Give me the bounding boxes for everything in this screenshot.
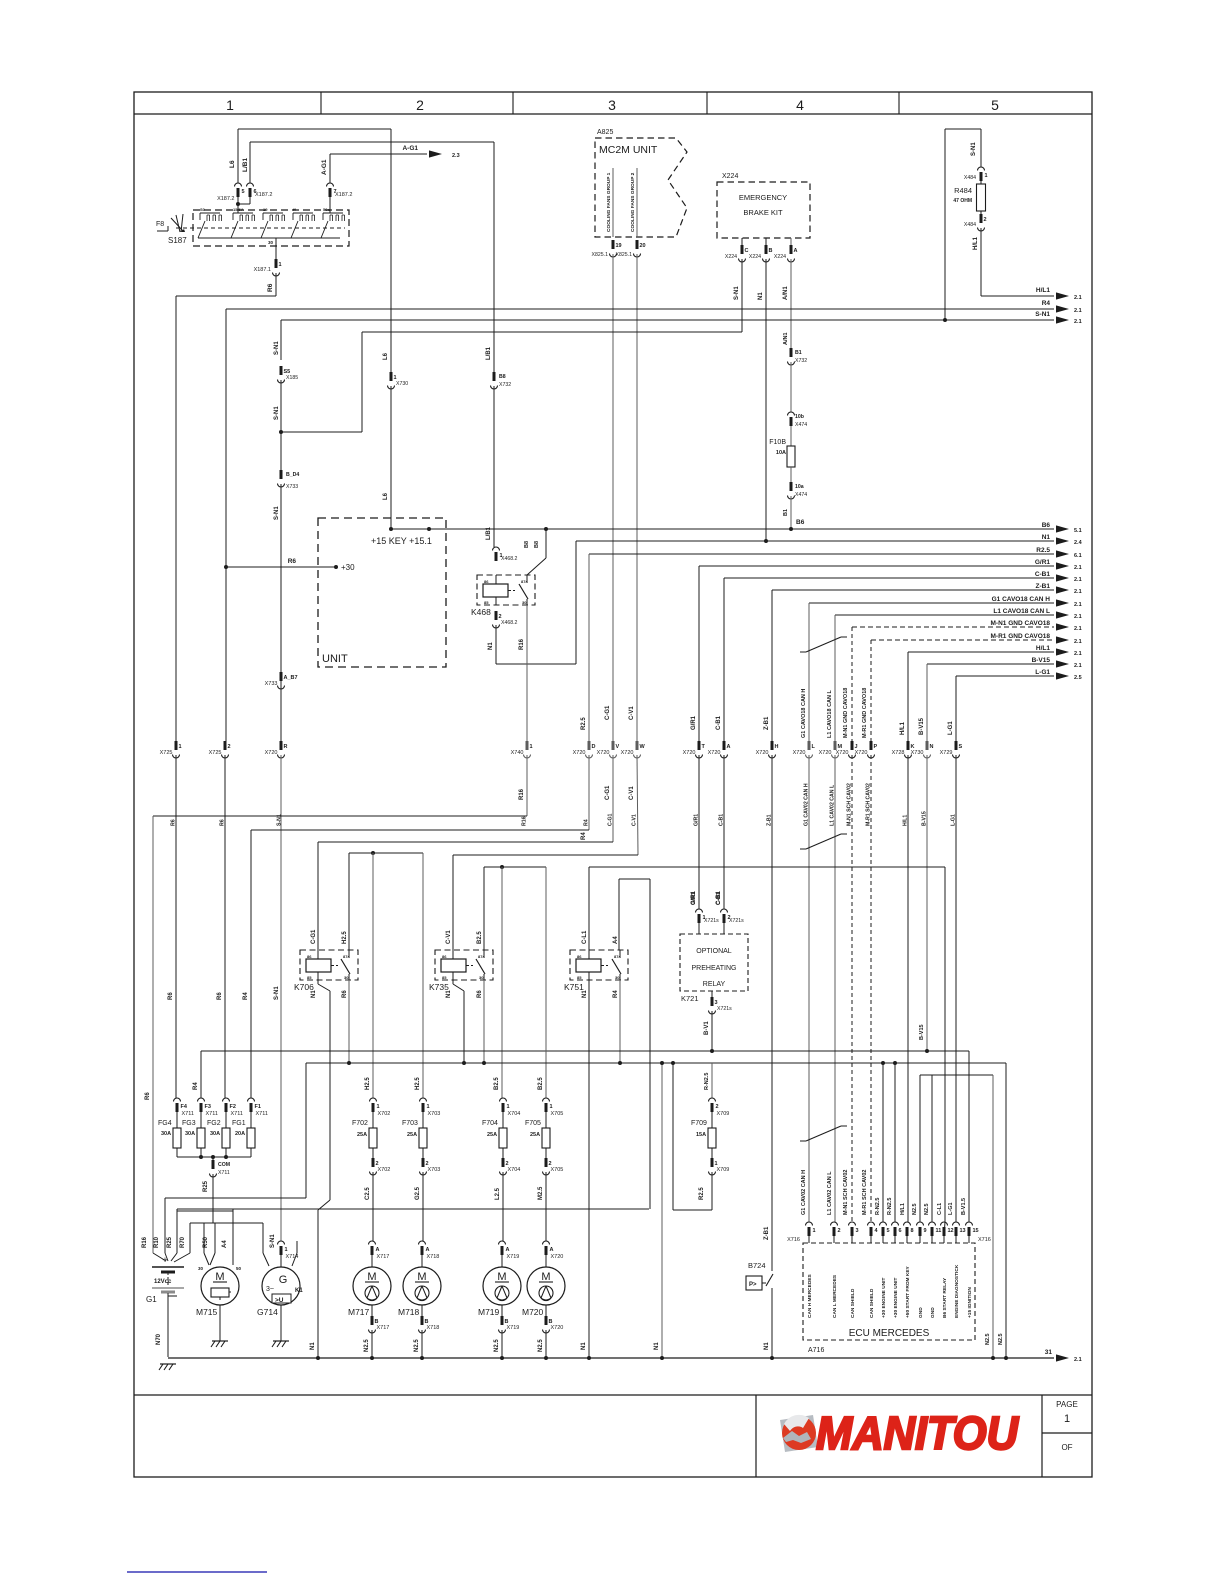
connector X733 pin B_D4	[278, 470, 285, 487]
svg-text:M-R1 SCH CAV02: M-R1 SCH CAV02	[862, 1170, 868, 1215]
wire F702 feed	[372, 853, 374, 1098]
svg-text:V: V	[616, 744, 620, 750]
wire L6 into key unit	[390, 386, 392, 529]
bus y1198	[165, 1197, 306, 1199]
wire FG1 feed col 251	[250, 830, 252, 1098]
svg-text:X187.2: X187.2	[255, 192, 272, 198]
svg-text:G/R1: G/R1	[1035, 559, 1051, 566]
svg-text:C-V1: C-V1	[632, 814, 638, 826]
svg-text:B1: B1	[783, 509, 789, 516]
svg-text:COOLING FANS GROUP 1: COOLING FANS GROUP 1	[606, 172, 612, 232]
svg-text:R25: R25	[203, 1180, 209, 1192]
svg-text:Z-B1: Z-B1	[764, 1226, 770, 1240]
svg-text:X720: X720	[819, 750, 832, 756]
wire L/B1 top bus	[250, 141, 494, 143]
svg-text:F4: F4	[181, 1104, 188, 1110]
svg-text:1: 1	[985, 173, 988, 179]
svg-text:R4: R4	[243, 992, 249, 1000]
junction +15.1	[427, 527, 431, 531]
off-page arrow H/L1	[1056, 648, 1069, 655]
junction S-N1	[279, 430, 283, 434]
svg-text:X725: X725	[160, 750, 173, 756]
svg-text:X185: X185	[286, 375, 298, 381]
connector X718 pin B	[421, 1305, 423, 1316]
svg-text:+15 KEY +15.1: +15 KEY +15.1	[371, 536, 432, 546]
svg-text:N1: N1	[1042, 534, 1051, 541]
svg-text:M: M	[417, 1271, 426, 1283]
svg-text:A: A	[550, 1247, 554, 1253]
wire F709 feed	[711, 1063, 713, 1098]
wire R-N2.5 to ECU pin6	[894, 1063, 896, 1222]
off-page arrow L1 CAVO18 CAN L	[1056, 611, 1069, 618]
svg-text:X716: X716	[978, 1237, 991, 1243]
svg-text:N1: N1	[764, 1342, 770, 1350]
svg-text:9: 9	[924, 1228, 927, 1234]
svg-text:H2.5: H2.5	[365, 1077, 371, 1090]
bus y1209	[177, 1208, 649, 1210]
svg-text:X720: X720	[265, 750, 278, 756]
svg-text:B6: B6	[1042, 522, 1051, 529]
connector X716 pin 3	[849, 1222, 859, 1236]
svg-text:2.1: 2.1	[1074, 589, 1082, 595]
svg-text:N1: N1	[654, 1342, 660, 1350]
svg-text:15A: 15A	[696, 1132, 706, 1138]
svg-text:30: 30	[344, 975, 349, 980]
switch bank 1 (S0)	[198, 207, 222, 238]
svg-text:W: W	[640, 744, 646, 750]
svg-text:5: 5	[991, 97, 999, 113]
svg-text:M-R1 GND CAVO18: M-R1 GND CAVO18	[991, 633, 1051, 640]
wire M-R1 GND CAVO18 drop	[870, 640, 872, 741]
svg-text:11: 11	[936, 1228, 942, 1234]
bus wire N1	[576, 540, 1054, 542]
bus y1063 N	[306, 1062, 1006, 1064]
svg-text:FG2: FG2	[207, 1120, 221, 1127]
svg-text:L6: L6	[383, 492, 389, 500]
svg-text:15/5A: 15/5A	[233, 207, 244, 212]
wire K751 contact feed	[618, 879, 620, 950]
wire F705 feed	[545, 867, 547, 1098]
svg-text:X484: X484	[964, 175, 976, 181]
svg-text:R16: R16	[519, 788, 525, 800]
svg-text:X728: X728	[892, 750, 905, 756]
svg-text:F10B: F10B	[769, 439, 786, 446]
svg-text:X720: X720	[683, 750, 696, 756]
wire R-N2.5 to ECU pin5	[882, 1063, 884, 1222]
connector X711 pin COM	[212, 1157, 214, 1160]
wire M-R1 SCH CAV02 col 871	[870, 755, 872, 1222]
relay K735	[429, 950, 493, 992]
pressure switch B724	[746, 1261, 773, 1290]
svg-text:X718: X718	[427, 1254, 440, 1260]
wire A-G1	[330, 153, 427, 155]
svg-text:A/N1: A/N1	[783, 286, 789, 300]
svg-text:5.1: 5.1	[1074, 528, 1082, 534]
svg-text:R2.5: R2.5	[699, 1187, 705, 1200]
fuse F709 15A	[691, 1098, 729, 1175]
wire S-N1 bus	[281, 319, 1054, 321]
connector X720 pin J	[836, 741, 858, 758]
wire R4 col 589	[588, 755, 590, 830]
connector X720 pin B	[545, 1305, 547, 1316]
wire B1 upper	[790, 362, 792, 412]
connector X224 pin A	[790, 238, 792, 245]
svg-text:C-G1: C-G1	[605, 705, 611, 720]
wire L-G1 col 956	[955, 755, 957, 1222]
motor M717	[348, 1267, 391, 1317]
bus wire C-B1	[724, 577, 1054, 579]
wire C-V1 from MC2M	[636, 254, 638, 741]
battery funnel diagonals	[153, 1253, 166, 1261]
svg-text:X187.1: X187.1	[254, 267, 271, 273]
connector X729 pin S	[940, 741, 963, 758]
svg-text:F704: F704	[482, 1120, 498, 1127]
svg-text:FG3: FG3	[182, 1120, 196, 1127]
svg-text:12: 12	[948, 1228, 954, 1234]
svg-text:6.1: 6.1	[1074, 553, 1082, 559]
svg-text:4: 4	[796, 97, 804, 113]
svg-text:1: 1	[427, 1104, 430, 1110]
svg-text:N2.5: N2.5	[494, 1339, 500, 1352]
fuse FG1 20A	[232, 1098, 268, 1157]
svg-text:A825: A825	[597, 129, 613, 136]
wire N70 to ground	[167, 1293, 169, 1357]
wire M715 to ground	[219, 1305, 221, 1341]
svg-text:X729: X729	[940, 750, 953, 756]
connector X721s pin 1	[696, 909, 706, 923]
svg-text:86: 86	[577, 954, 582, 959]
wire H/L1 bus	[981, 295, 1054, 297]
svg-text:N2.5: N2.5	[414, 1339, 420, 1352]
svg-text:CAN H MERCEDES: CAN H MERCEDES	[807, 1273, 813, 1318]
connector X733 pin A_B7	[265, 672, 298, 689]
connector X716 pin 9	[917, 1222, 927, 1236]
svg-text:X474: X474	[795, 422, 807, 428]
wire L1 CAVO18 CAN L drop	[834, 615, 836, 741]
off-page arrow N1	[1056, 537, 1069, 544]
motor M720	[522, 1267, 565, 1317]
connector X187.2 pin 6	[247, 183, 257, 197]
svg-text:L6: L6	[229, 160, 236, 168]
wire L/B1 mid	[493, 142, 495, 372]
wire labels below connector row	[171, 783, 957, 826]
svg-text:2: 2	[228, 744, 231, 750]
svg-text:S-N1: S-N1	[971, 142, 977, 156]
motor M719	[478, 1267, 521, 1317]
wire R10	[164, 1198, 166, 1253]
svg-text:1: 1	[279, 262, 282, 268]
svg-text:R6: R6	[477, 990, 483, 998]
svg-text:R16: R16	[519, 638, 525, 650]
svg-text:86: 86	[307, 954, 312, 959]
svg-text:S-N1: S-N1	[1035, 311, 1050, 318]
svg-text:1: 1	[377, 1104, 380, 1110]
off-page arrow H/L1	[1056, 292, 1069, 299]
off-page arrow R4	[1056, 305, 1069, 312]
light switch S187 dashed box	[193, 210, 349, 246]
svg-text:X474: X474	[795, 492, 807, 498]
connector X187.1 pin 1	[273, 259, 282, 276]
svg-text:2.1: 2.1	[1074, 651, 1082, 657]
bus wire R2.5	[589, 553, 1054, 555]
funnel labels	[142, 1234, 276, 1248]
svg-text:G1 CAV02 CAN H: G1 CAV02 CAN H	[801, 1170, 807, 1215]
svg-text:X720: X720	[708, 750, 721, 756]
wire R25 from COM	[212, 1174, 214, 1223]
svg-text:2: 2	[984, 217, 987, 223]
svg-text:N: N	[930, 744, 934, 750]
svg-text:C-L1: C-L1	[582, 930, 588, 944]
svg-text:R16: R16	[142, 1236, 148, 1248]
svg-text:R484: R484	[954, 186, 972, 195]
svg-text:30: 30	[479, 975, 484, 980]
wire R4 bus	[226, 308, 1054, 310]
svg-text:N1: N1	[488, 642, 494, 650]
svg-text:K721: K721	[681, 994, 699, 1003]
svg-text:N1: N1	[758, 292, 764, 300]
svg-text:S-N1: S-N1	[274, 506, 280, 520]
svg-text:2: 2	[716, 1104, 719, 1110]
svg-text:B-V15: B-V15	[919, 717, 925, 735]
wire N2.5 to ECU pin8	[919, 1075, 921, 1222]
svg-text:X705: X705	[551, 1167, 564, 1173]
svg-text:B: B	[769, 248, 773, 254]
wire 650 to bus1209	[649, 879, 651, 1209]
svg-text:COOLING FANS GROUP 2: COOLING FANS GROUP 2	[630, 172, 636, 232]
svg-text:85: 85	[307, 975, 312, 980]
bus wire M-R1 GND CAVO18	[871, 639, 1054, 641]
svg-text:X719: X719	[507, 1254, 520, 1260]
svg-text:86: 86	[484, 579, 489, 584]
svg-text:X224: X224	[722, 173, 738, 180]
svg-text:F1: F1	[255, 1104, 261, 1110]
connector X720 pin A	[543, 1241, 564, 1260]
svg-text:R6: R6	[217, 992, 223, 1000]
wire H/L1 drop	[907, 652, 909, 741]
switch F8 symbol	[157, 214, 185, 232]
wire L6 top bus	[238, 128, 391, 130]
svg-text:M2.5: M2.5	[538, 1186, 544, 1200]
connector X474 pin 10b	[788, 412, 795, 426]
svg-text:X732: X732	[795, 358, 807, 364]
connector X716 pin 5	[880, 1222, 890, 1236]
svg-text:86: 86	[442, 954, 447, 959]
wire R2.5 drop	[588, 554, 590, 741]
connector X720 pin L	[793, 741, 816, 758]
connector X224 pin B	[765, 238, 767, 245]
wire G714 feed right	[296, 1241, 298, 1253]
wire S-N1 lower	[280, 484, 282, 741]
svg-text:X717: X717	[377, 1254, 390, 1260]
bus y855 C-V1	[453, 854, 638, 856]
svg-text:X720: X720	[756, 750, 769, 756]
wire K706 contact feed	[348, 853, 350, 950]
svg-text:F705: F705	[525, 1120, 541, 1127]
fuse F703 25A	[402, 1098, 440, 1175]
connector X716 pin 13	[953, 1222, 966, 1236]
wire C2.5 from F702	[372, 1172, 374, 1241]
svg-text:S-N1: S-N1	[274, 406, 280, 420]
svg-text:M: M	[541, 1271, 550, 1283]
svg-text:R4: R4	[1042, 300, 1051, 307]
svg-text:B6 START RELAY: B6 START RELAY	[942, 1277, 948, 1318]
off-page arrow Z-B1	[1056, 586, 1069, 593]
wire cooling fans group 2	[636, 168, 638, 237]
svg-text:X825.1: X825.1	[592, 252, 609, 258]
svg-text:X711: X711	[256, 1111, 268, 1117]
svg-text:A: A	[506, 1247, 510, 1253]
wire N2.5 from M720	[545, 1330, 547, 1358]
svg-text:F703: F703	[402, 1120, 418, 1127]
off-page arrow L-G1	[1056, 672, 1069, 679]
svg-text:X224: X224	[749, 254, 761, 260]
svg-text:C-V1: C-V1	[629, 706, 635, 720]
wire L6 mid	[390, 129, 392, 372]
svg-text:D: D	[592, 744, 596, 750]
wire Z-B1 col 772	[771, 755, 773, 1271]
wire K751 N1 out	[588, 980, 590, 1358]
svg-text:3: 3	[608, 97, 616, 113]
svg-text:M718: M718	[398, 1307, 420, 1317]
relay K751	[564, 950, 628, 992]
bus y853 H2.5	[349, 852, 423, 854]
svg-text:X711: X711	[206, 1111, 218, 1117]
wire B-V15 drop	[926, 664, 928, 741]
svg-text:10A: 10A	[776, 450, 786, 456]
connector X720 pin P	[855, 741, 878, 758]
svg-text:X484: X484	[964, 222, 976, 228]
svg-text:2: 2	[416, 97, 424, 113]
svg-text:B2.5: B2.5	[538, 1077, 544, 1090]
wire H/L1 col 908	[907, 755, 909, 1222]
wire N1 long 662	[661, 1063, 663, 1358]
connector X484 pin 1	[978, 167, 988, 181]
wire N2.5 from M719	[501, 1330, 503, 1358]
svg-text:X711: X711	[182, 1111, 194, 1117]
svg-text:R6: R6	[342, 990, 348, 998]
connector X716 pin 12	[941, 1222, 954, 1236]
svg-text:B8: B8	[534, 541, 540, 548]
svg-text:X709: X709	[717, 1167, 730, 1173]
connector X825.1 pin 20	[634, 240, 646, 257]
svg-text:X714: X714	[286, 1254, 299, 1260]
svg-text:L1 CAVO18 CAN L: L1 CAVO18 CAN L	[827, 689, 833, 738]
fuse group common bar	[177, 1156, 251, 1158]
svg-text:25A: 25A	[487, 1132, 497, 1138]
svg-text:F709: F709	[691, 1120, 707, 1127]
wire C-B1 drop	[723, 578, 725, 741]
svg-text:A_B7: A_B7	[284, 675, 298, 681]
connector X730 pin N	[911, 741, 934, 758]
wire B-V1.5 to ECU pin15	[968, 1051, 970, 1222]
svg-text:19: 19	[263, 207, 268, 212]
svg-text:F3: F3	[205, 1104, 211, 1110]
fuse F10B 10A	[790, 426, 792, 446]
bus wire G/R1	[699, 565, 1054, 567]
svg-text:FG1: FG1	[232, 1120, 246, 1127]
svg-text:X719: X719	[507, 1325, 520, 1331]
connector X725 pin 1	[160, 741, 182, 758]
svg-text:+30 ENGINE UNIT: +30 ENGINE UNIT	[881, 1278, 887, 1318]
wire G1 CAVO18 CAN H drop	[808, 603, 810, 741]
svg-text:S-N1: S-N1	[274, 341, 280, 355]
svg-text:C2.5: C2.5	[365, 1187, 371, 1200]
svg-text:L1 CAVO18 CAN L: L1 CAVO18 CAN L	[993, 608, 1050, 615]
svg-text:L-G1: L-G1	[948, 1202, 954, 1215]
wire K751 R4 out	[619, 980, 621, 1063]
svg-text:R6: R6	[267, 283, 274, 292]
svg-text:G714: G714	[257, 1307, 278, 1317]
svg-text:+30: +30	[341, 563, 355, 572]
wire F704 feed	[501, 867, 503, 1098]
connector X717 pin A	[369, 1241, 390, 1260]
wire X721s1 into box	[698, 923, 700, 934]
svg-text:+30 ENGINE UNIT: +30 ENGINE UNIT	[893, 1278, 899, 1318]
bus wire L-G1	[956, 675, 1054, 677]
svg-text:X717: X717	[377, 1325, 390, 1331]
svg-text:N2.5: N2.5	[998, 1333, 1004, 1345]
bus wire G1 CAVO18 CAN H	[809, 602, 1054, 604]
connector X719 pin A	[499, 1241, 520, 1260]
svg-text:A: A	[426, 1247, 430, 1253]
twist symbol CAN pair upper	[806, 637, 841, 652]
wire N2.5 from M718	[421, 1330, 423, 1358]
connector X718 pin A	[419, 1241, 440, 1260]
svg-text:30A: 30A	[210, 1131, 220, 1137]
fuse F702 25A	[352, 1098, 390, 1175]
svg-text:2.1: 2.1	[1074, 295, 1082, 301]
svg-text:C-B1: C-B1	[716, 715, 722, 730]
wire B-V15 col 927	[926, 755, 928, 1051]
key switch unit dashed box	[318, 518, 446, 667]
svg-text:X468.2: X468.2	[501, 556, 518, 562]
svg-text:H/L1: H/L1	[900, 1203, 906, 1215]
bus y867 B2.5	[484, 866, 546, 868]
svg-text:2.4: 2.4	[1074, 540, 1083, 546]
svg-text:S: S	[959, 744, 963, 750]
svg-text:N1: N1	[310, 1342, 316, 1350]
svg-text:30: 30	[615, 975, 620, 980]
svg-text:R4: R4	[581, 832, 587, 840]
svg-text:R6: R6	[288, 558, 297, 565]
wire N2.5 to ECU pin9	[931, 1075, 933, 1222]
ECU Mercedes A716 dashed box	[803, 1243, 975, 1340]
wire R2.5 below F709	[711, 1172, 713, 1210]
svg-text:30: 30	[268, 240, 274, 245]
svg-text:G2.5: G2.5	[415, 1186, 421, 1200]
wire B8 jumper from K468 contact	[527, 558, 546, 575]
svg-text:X709: X709	[717, 1111, 730, 1117]
svg-text:F702: F702	[352, 1120, 368, 1127]
off-page arrow B6	[1056, 525, 1069, 532]
svg-text:X187.2: X187.2	[335, 192, 352, 198]
connector X716 pin 1	[806, 1222, 816, 1236]
svg-text:G1 CAVO18 CAN H: G1 CAVO18 CAN H	[992, 596, 1051, 603]
wire N2.5 from M717	[371, 1330, 373, 1358]
svg-text:H/L1: H/L1	[1036, 287, 1050, 294]
svg-text:A: A	[376, 1247, 380, 1253]
svg-text:1: 1	[530, 744, 533, 750]
svg-text:B-V15: B-V15	[1032, 657, 1051, 664]
svg-text:M: M	[497, 1271, 506, 1283]
switch bank 4 (ff)	[291, 207, 315, 238]
svg-text:X733: X733	[286, 484, 298, 490]
svg-text:2.1: 2.1	[1074, 565, 1082, 571]
wire M715 feed right	[214, 1223, 216, 1253]
connector X714 pin 1	[278, 1241, 299, 1260]
svg-text:31: 31	[1045, 1349, 1053, 1356]
svg-text:R4: R4	[193, 1082, 199, 1090]
